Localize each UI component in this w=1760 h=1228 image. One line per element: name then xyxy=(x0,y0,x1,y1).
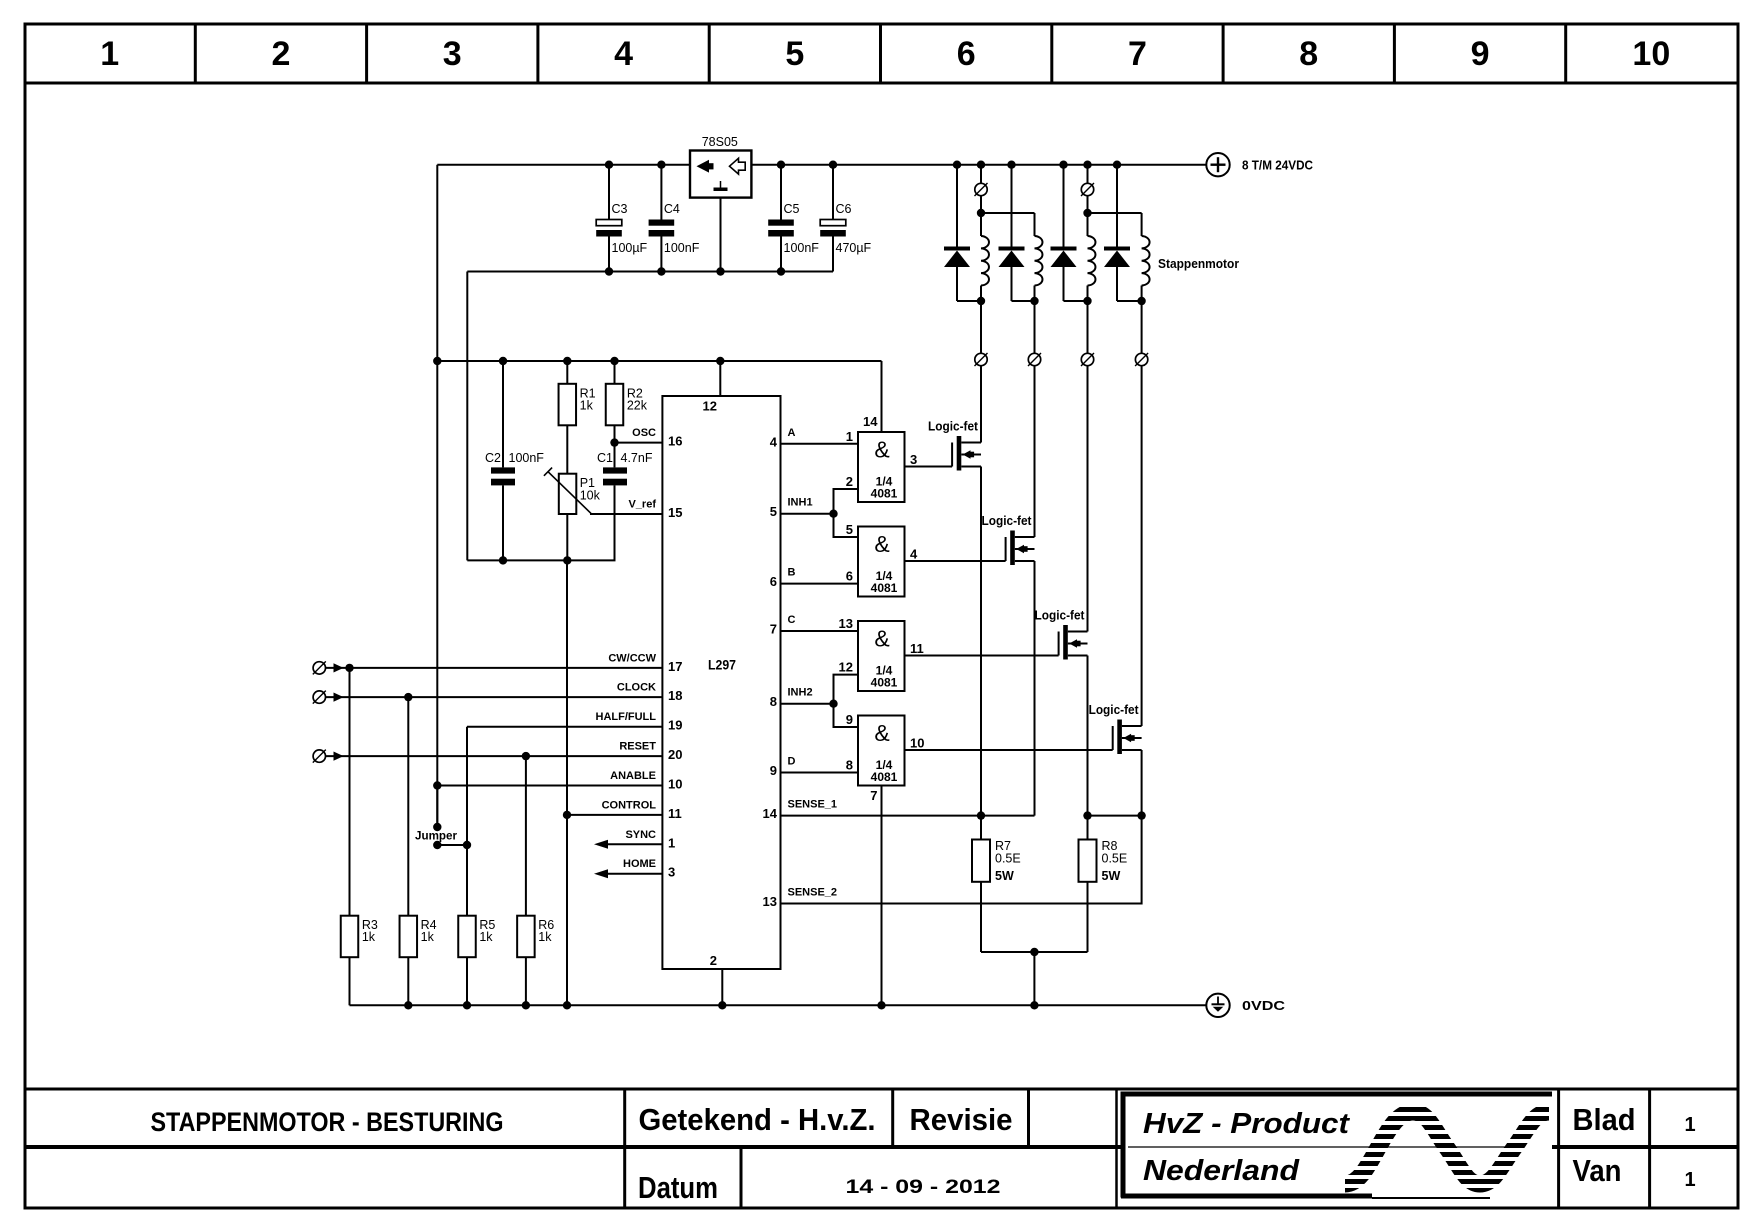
title block divider blad/number xyxy=(1648,1089,1651,1208)
junction R8 top xyxy=(1083,811,1091,819)
wire sense resistors to ground xyxy=(981,951,1088,953)
wire R3 bottom xyxy=(349,957,351,1005)
diode D2 flyback xyxy=(999,165,1035,301)
svg-text:Jumper: Jumper xyxy=(415,829,457,843)
wire gate4 pin7 ground xyxy=(881,786,883,1006)
wire regulator ground pin xyxy=(720,198,722,272)
header divider 6 xyxy=(1050,24,1053,83)
svg-text:100nF: 100nF xyxy=(664,241,700,255)
title block divider title/getekend xyxy=(623,1089,626,1208)
title block top line xyxy=(24,1088,1739,1091)
header divider 8 xyxy=(1393,24,1396,83)
svg-text:14: 14 xyxy=(763,806,778,821)
svg-text:Nederland: Nederland xyxy=(1143,1155,1300,1187)
svg-text:Getekend - H.v.Z.: Getekend - H.v.Z. xyxy=(639,1102,876,1137)
node OSC xyxy=(610,438,618,446)
svg-text:1: 1 xyxy=(1684,1114,1695,1136)
svg-text:1: 1 xyxy=(1684,1169,1695,1191)
wire R2 to OSC node xyxy=(614,425,616,442)
header divider 5 xyxy=(879,24,882,83)
svg-text:0VDC: 0VDC xyxy=(1242,999,1285,1013)
svg-text:Logic-fet: Logic-fet xyxy=(1035,609,1086,623)
capacitor C2 100nF xyxy=(485,451,544,485)
svg-text:4: 4 xyxy=(614,35,633,73)
junction tap1 split xyxy=(977,209,985,217)
wire centre tap 1 xyxy=(980,165,982,184)
wire SYNC with arrow xyxy=(608,843,662,845)
capacitor C5 100nF xyxy=(768,165,819,272)
svg-text:A: A xyxy=(788,427,796,439)
logo box HvZ xyxy=(1121,1092,1126,1198)
connector input RESET xyxy=(313,750,326,763)
svg-text:20: 20 xyxy=(668,747,682,762)
junction 5V rail R1 xyxy=(563,357,571,365)
svg-text:RESET: RESET xyxy=(619,741,656,753)
resistor R7 0.5E 5W xyxy=(972,839,1021,883)
svg-text:100nF: 100nF xyxy=(784,241,820,255)
svg-text:12: 12 xyxy=(839,660,853,675)
svg-text:5: 5 xyxy=(770,504,777,519)
junction C5 top xyxy=(777,161,785,169)
junction C3 ground xyxy=(605,267,613,275)
junction 0V rail xyxy=(563,1001,571,1009)
gate U3d 1/4 4081 xyxy=(858,716,905,786)
svg-text:Revisie: Revisie xyxy=(910,1102,1013,1137)
wire R6 column xyxy=(525,756,527,916)
transistor Q1 Logic-fet xyxy=(928,420,981,471)
wire 5V feed column xyxy=(436,165,438,827)
junction C5 ground xyxy=(777,267,785,275)
wire phase column x=1087.5 xyxy=(1087,301,1089,353)
title block divider before logo xyxy=(1115,1089,1118,1208)
title block divider getekend/revisie xyxy=(891,1089,894,1147)
wire coil D top xyxy=(1141,213,1143,236)
svg-text:4081: 4081 xyxy=(871,487,898,501)
wire HOME with arrow xyxy=(608,873,662,875)
svg-text:13: 13 xyxy=(763,894,777,909)
wire gate2 output to Q2 xyxy=(905,560,1006,562)
svg-text:1k: 1k xyxy=(538,930,552,944)
connector centre tap 1 xyxy=(974,183,987,196)
wire gate3 output to Q3 xyxy=(905,655,1059,657)
svg-text:SYNC: SYNC xyxy=(625,829,656,841)
jumper pin B xyxy=(433,841,441,849)
resistor R6 1k xyxy=(517,916,554,958)
wire Q3 source column xyxy=(1087,656,1089,816)
wire C1 top xyxy=(614,443,616,468)
svg-text:0.5E: 0.5E xyxy=(1102,852,1128,866)
svg-text:Blad: Blad xyxy=(1573,1102,1636,1137)
gate U3b 1/4 4081 xyxy=(858,527,905,597)
wire R6 bottom xyxy=(525,957,527,1005)
svg-text:Logic-fet: Logic-fet xyxy=(982,514,1033,528)
svg-text:470µF: 470µF xyxy=(836,241,872,255)
svg-text:9: 9 xyxy=(1471,35,1490,73)
junction tap2 split xyxy=(1083,209,1091,217)
wire ground riser left xyxy=(466,272,468,561)
junction 0V rail xyxy=(522,1001,530,1009)
svg-text:8 T/M 24VDC: 8 T/M 24VDC xyxy=(1242,158,1314,173)
connector input CW/CCW xyxy=(313,661,326,674)
wire Q4 source column xyxy=(1141,750,1143,816)
svg-text:&: & xyxy=(874,720,889,746)
capacitor C6 470uF xyxy=(820,165,871,272)
junction SENSE_1/R7 xyxy=(977,811,985,819)
junction 0V rail xyxy=(404,1001,412,1009)
svg-text:C4: C4 xyxy=(664,202,680,216)
svg-text:1k: 1k xyxy=(421,930,435,944)
svg-text:C5: C5 xyxy=(784,202,800,216)
wire A to gate xyxy=(781,443,859,445)
junction 0V rail xyxy=(1030,1001,1038,1009)
wire OSC xyxy=(615,442,663,444)
junction coil/diode bottom xyxy=(1083,297,1091,305)
wire INH2 net xyxy=(781,703,834,705)
connector motor phase xyxy=(1081,353,1094,366)
svg-text:15: 15 xyxy=(668,505,682,520)
svg-text:CLOCK: CLOCK xyxy=(617,682,656,694)
wire R7 top lead xyxy=(980,816,982,840)
junction coil/diode bottom xyxy=(977,297,985,305)
svg-text:5W: 5W xyxy=(1102,869,1121,883)
svg-text:0.5E: 0.5E xyxy=(995,852,1021,866)
wire tap1 to coil B xyxy=(981,212,1035,214)
wire L297 pin12 xyxy=(719,361,721,396)
junction D3 rail xyxy=(1059,161,1067,169)
svg-text:7: 7 xyxy=(1128,35,1147,73)
junction C4 ground xyxy=(657,267,665,275)
wire phase column x=981 xyxy=(980,301,982,353)
junction 5V/ANABLE xyxy=(433,781,441,789)
diode D3 flyback xyxy=(1051,165,1088,301)
connector centre tap 2 xyxy=(1081,183,1094,196)
svg-text:C6: C6 xyxy=(836,202,852,216)
wire SENSE_1 xyxy=(781,815,1035,817)
svg-text:10: 10 xyxy=(1632,35,1670,73)
junction D4 rail xyxy=(1113,161,1121,169)
header row bottom line xyxy=(24,82,1739,85)
svg-text:11: 11 xyxy=(668,806,682,821)
svg-text:B: B xyxy=(788,567,796,579)
wire R5 column xyxy=(466,727,468,916)
inductor motor phase B xyxy=(1035,236,1043,286)
wire ground column to control/0V xyxy=(566,560,568,1005)
wire R7 bottom lead xyxy=(980,882,982,952)
header divider 4 xyxy=(708,24,711,83)
transistor Q4 Logic-fet xyxy=(1089,703,1142,754)
wire input CLOCK xyxy=(326,696,663,698)
junction D1 rail xyxy=(953,161,961,169)
inductor motor phase C xyxy=(1088,236,1096,286)
svg-text:100nF: 100nF xyxy=(509,451,545,465)
wire phase column x=1141.6 xyxy=(1141,301,1143,353)
wire ANABLE xyxy=(437,785,662,787)
resistor R8 0.5E 5W xyxy=(1079,839,1128,883)
svg-text:SENSE_1: SENSE_1 xyxy=(788,799,838,811)
svg-text:HOME: HOME xyxy=(623,858,656,870)
wire CONTROL xyxy=(567,814,662,816)
wire coil C top xyxy=(1087,213,1089,236)
capacitor C3 100uF xyxy=(596,165,647,272)
svg-text:INH1: INH1 xyxy=(788,497,813,509)
header divider 3 xyxy=(536,24,539,83)
svg-text:9: 9 xyxy=(770,763,777,778)
wire HALF/FULL xyxy=(467,726,662,728)
svg-text:1: 1 xyxy=(668,835,675,850)
IC U2 L297 xyxy=(662,396,780,969)
wire 5V rail from regulator output xyxy=(437,164,690,166)
svg-text:C: C xyxy=(788,614,796,626)
svg-text:Datum: Datum xyxy=(638,1170,718,1205)
svg-text:13: 13 xyxy=(839,616,853,631)
wire rail to gate pin14 xyxy=(881,361,883,432)
junction R4/CLOCK xyxy=(404,693,412,701)
svg-text:22k: 22k xyxy=(627,398,648,412)
wire Q1 source column xyxy=(980,467,982,816)
connector motor phase xyxy=(974,353,987,366)
svg-text:6: 6 xyxy=(770,574,777,589)
wire R4 column xyxy=(407,697,409,916)
svg-text:HALF/FULL: HALF/FULL xyxy=(596,711,657,723)
svg-text:4081: 4081 xyxy=(871,676,898,690)
svg-text:OSC: OSC xyxy=(632,427,656,439)
wire D to gate xyxy=(781,772,859,774)
svg-text:V_ref: V_ref xyxy=(628,499,656,511)
wire coil B top xyxy=(1034,213,1036,236)
wire coil A top xyxy=(980,213,982,236)
wire tap2 to coil D xyxy=(1088,212,1142,214)
svg-text:6: 6 xyxy=(846,569,853,584)
title block divider revisie/empty xyxy=(1027,1089,1030,1147)
svg-text:100µF: 100µF xyxy=(612,241,648,255)
diode D4 flyback xyxy=(1104,165,1142,301)
svg-text:3: 3 xyxy=(910,452,917,467)
wire R1 top xyxy=(566,361,568,384)
svg-text:8: 8 xyxy=(770,694,777,709)
junction 5V rail pin12 xyxy=(716,357,724,365)
svg-text:CW/CCW: CW/CCW xyxy=(608,652,656,664)
resistor R1 1k xyxy=(559,384,596,426)
junction C4 top xyxy=(657,161,665,169)
svg-text:Logic-fet: Logic-fet xyxy=(928,420,979,434)
svg-text:5: 5 xyxy=(785,35,804,73)
wire R3 column xyxy=(349,668,351,916)
gate U3a 1/4 4081 xyxy=(858,432,905,502)
wire input RESET xyxy=(326,755,663,757)
svg-text:INH2: INH2 xyxy=(788,687,813,699)
svg-text:D: D xyxy=(788,756,796,768)
header divider 1 xyxy=(194,24,197,83)
capacitor C1 4.7nF xyxy=(597,451,653,485)
wire 24V rail to terminal xyxy=(751,164,1206,166)
junction INH2 xyxy=(829,700,837,708)
wire Q2 source column xyxy=(1034,561,1036,816)
svg-text:5: 5 xyxy=(846,522,853,537)
wire V_ref xyxy=(590,513,662,515)
inductor motor phase D xyxy=(1142,236,1150,286)
svg-text:12: 12 xyxy=(703,399,717,414)
svg-text:9: 9 xyxy=(846,712,853,727)
wire R2 top xyxy=(614,361,616,384)
wire R4 bottom xyxy=(407,957,409,1005)
svg-text:3: 3 xyxy=(668,865,675,880)
junction 5V rail C2 xyxy=(499,357,507,365)
terminal 0VDC xyxy=(1206,994,1229,1017)
junction gnd/CONTROL xyxy=(563,811,571,819)
junction C6 top xyxy=(829,161,837,169)
svg-text:4: 4 xyxy=(770,434,778,449)
svg-text:3: 3 xyxy=(443,35,462,73)
resistor R2 22k xyxy=(606,384,648,426)
title block divider logo/blad xyxy=(1557,1089,1560,1208)
svg-text:8: 8 xyxy=(846,758,853,773)
wire R8 bottom lead xyxy=(1087,882,1089,952)
svg-text:10k: 10k xyxy=(580,489,601,503)
svg-text:C3: C3 xyxy=(612,202,628,216)
wire R1 to P1 xyxy=(566,425,568,473)
svg-text:Van: Van xyxy=(1573,1153,1622,1188)
svg-text:16: 16 xyxy=(668,434,682,449)
svg-text:2: 2 xyxy=(846,474,853,489)
junction D2 rail xyxy=(1007,161,1015,169)
svg-text:2: 2 xyxy=(710,953,717,968)
svg-text:Stappenmotor: Stappenmotor xyxy=(1158,257,1239,271)
svg-text:Logic-fet: Logic-fet xyxy=(1089,703,1140,717)
wire C1 bottom xyxy=(614,485,616,560)
junction coil/diode bottom xyxy=(1030,297,1038,305)
transistor Q2 Logic-fet xyxy=(982,514,1035,565)
wire C to gate xyxy=(781,630,859,632)
inductor motor phase A xyxy=(981,236,989,286)
svg-text:14: 14 xyxy=(863,414,878,429)
wire B to gate xyxy=(781,583,859,585)
junction jumper/R5 column xyxy=(463,841,471,849)
junction 5V rail R2 xyxy=(610,357,618,365)
terminal +24V xyxy=(1206,153,1229,176)
wire 5V logic rail xyxy=(437,360,881,362)
svg-text:&: & xyxy=(874,531,889,557)
svg-text:5W: 5W xyxy=(995,869,1014,883)
svg-text:4.7nF: 4.7nF xyxy=(621,451,653,465)
svg-text:L297: L297 xyxy=(708,657,736,673)
svg-text:19: 19 xyxy=(668,718,682,733)
junction INH1 xyxy=(829,510,837,518)
title block row divider xyxy=(24,1145,1121,1149)
title block divider datum/date xyxy=(740,1147,743,1208)
logo midline xyxy=(1128,1146,1523,1148)
jumper pin A xyxy=(433,823,441,831)
wire C2 top xyxy=(502,361,504,467)
resistor R4 1k xyxy=(400,916,437,958)
junction 5V rail 5V col xyxy=(433,357,441,365)
svg-text:C2: C2 xyxy=(485,451,501,465)
svg-text:8: 8 xyxy=(1299,35,1318,73)
resistor R3 1k xyxy=(341,916,378,958)
svg-text:C1: C1 xyxy=(597,451,613,465)
svg-text:ANABLE: ANABLE xyxy=(610,770,656,782)
svg-text:&: & xyxy=(874,437,889,463)
connector input CLOCK xyxy=(313,691,326,704)
junction 0V rail xyxy=(877,1001,885,1009)
wire L297 pin2 xyxy=(721,969,723,1005)
svg-text:4081: 4081 xyxy=(871,770,898,784)
wire R8 top lead xyxy=(1087,816,1089,840)
wire analog ground rail xyxy=(467,559,615,561)
svg-text:STAPPENMOTOR - BESTURING: STAPPENMOTOR - BESTURING xyxy=(151,1107,504,1137)
svg-text:14 - 09 - 2012: 14 - 09 - 2012 xyxy=(846,1177,1001,1198)
junction C2 gnd xyxy=(499,556,507,564)
svg-text:11: 11 xyxy=(910,641,924,656)
potentiometer P1 10k xyxy=(544,468,601,514)
svg-text:1: 1 xyxy=(100,35,119,73)
diode D1 flyback xyxy=(944,165,981,301)
connector motor phase xyxy=(1135,353,1148,366)
wire capacitor ground rail xyxy=(467,271,833,273)
svg-text:18: 18 xyxy=(668,688,682,703)
jumper xyxy=(436,786,438,828)
header divider 2 xyxy=(365,24,368,83)
junction coil/diode bottom xyxy=(1137,297,1145,305)
junction R3/CWCCW xyxy=(345,664,353,672)
junction sense gnd xyxy=(1030,948,1038,956)
wire phase column x=1034.5 xyxy=(1034,301,1036,353)
wire centre tap 2 xyxy=(1087,165,1089,184)
junction R6/RESET xyxy=(522,752,530,760)
svg-text:1k: 1k xyxy=(580,398,594,412)
svg-text:7: 7 xyxy=(870,788,877,803)
header divider 9 xyxy=(1564,24,1567,83)
svg-text:7: 7 xyxy=(770,622,777,637)
svg-text:4081: 4081 xyxy=(871,581,898,595)
transistor Q3 Logic-fet xyxy=(1035,609,1088,660)
wire 0V rail xyxy=(350,1004,1207,1006)
wire input CW/CCW xyxy=(326,667,663,669)
resistor R5 1k xyxy=(458,916,495,958)
regulator U1 78S05 xyxy=(690,135,751,198)
junction C3 top xyxy=(605,161,613,169)
svg-text:10: 10 xyxy=(910,736,924,751)
wire R5 bottom xyxy=(466,957,468,1005)
svg-text:&: & xyxy=(874,626,889,652)
svg-text:HvZ - Product: HvZ - Product xyxy=(1143,1108,1350,1140)
svg-text:CONTROL: CONTROL xyxy=(602,799,657,811)
junction P1 gnd xyxy=(563,556,571,564)
svg-text:2: 2 xyxy=(271,35,290,73)
svg-text:4: 4 xyxy=(910,547,918,562)
wire C2 bottom xyxy=(502,485,504,560)
junction 0V rail xyxy=(463,1001,471,1009)
wire P1 bottom xyxy=(566,514,568,560)
junction pin2 ground rail xyxy=(718,1001,726,1009)
junction U1 gnd ground xyxy=(716,267,724,275)
junction tap2 rail xyxy=(1083,161,1091,169)
wire gate4 output to Q4 xyxy=(905,749,1113,751)
svg-text:6: 6 xyxy=(957,35,976,73)
junction tap1 rail xyxy=(977,161,985,169)
svg-text:17: 17 xyxy=(668,659,682,674)
svg-text:1k: 1k xyxy=(479,930,493,944)
wire gate1 output to Q1 xyxy=(905,466,953,468)
gate U3c 1/4 4081 xyxy=(858,621,905,691)
connector motor phase xyxy=(1028,353,1041,366)
junction SENSE_2/Q4 xyxy=(1137,811,1145,819)
wire INH1 net xyxy=(781,513,834,515)
capacitor C4 100nF xyxy=(649,165,700,272)
svg-text:1: 1 xyxy=(846,429,853,444)
svg-text:SENSE_2: SENSE_2 xyxy=(788,887,838,899)
wire SENSE_2 xyxy=(781,816,1142,904)
svg-text:10: 10 xyxy=(668,777,682,792)
